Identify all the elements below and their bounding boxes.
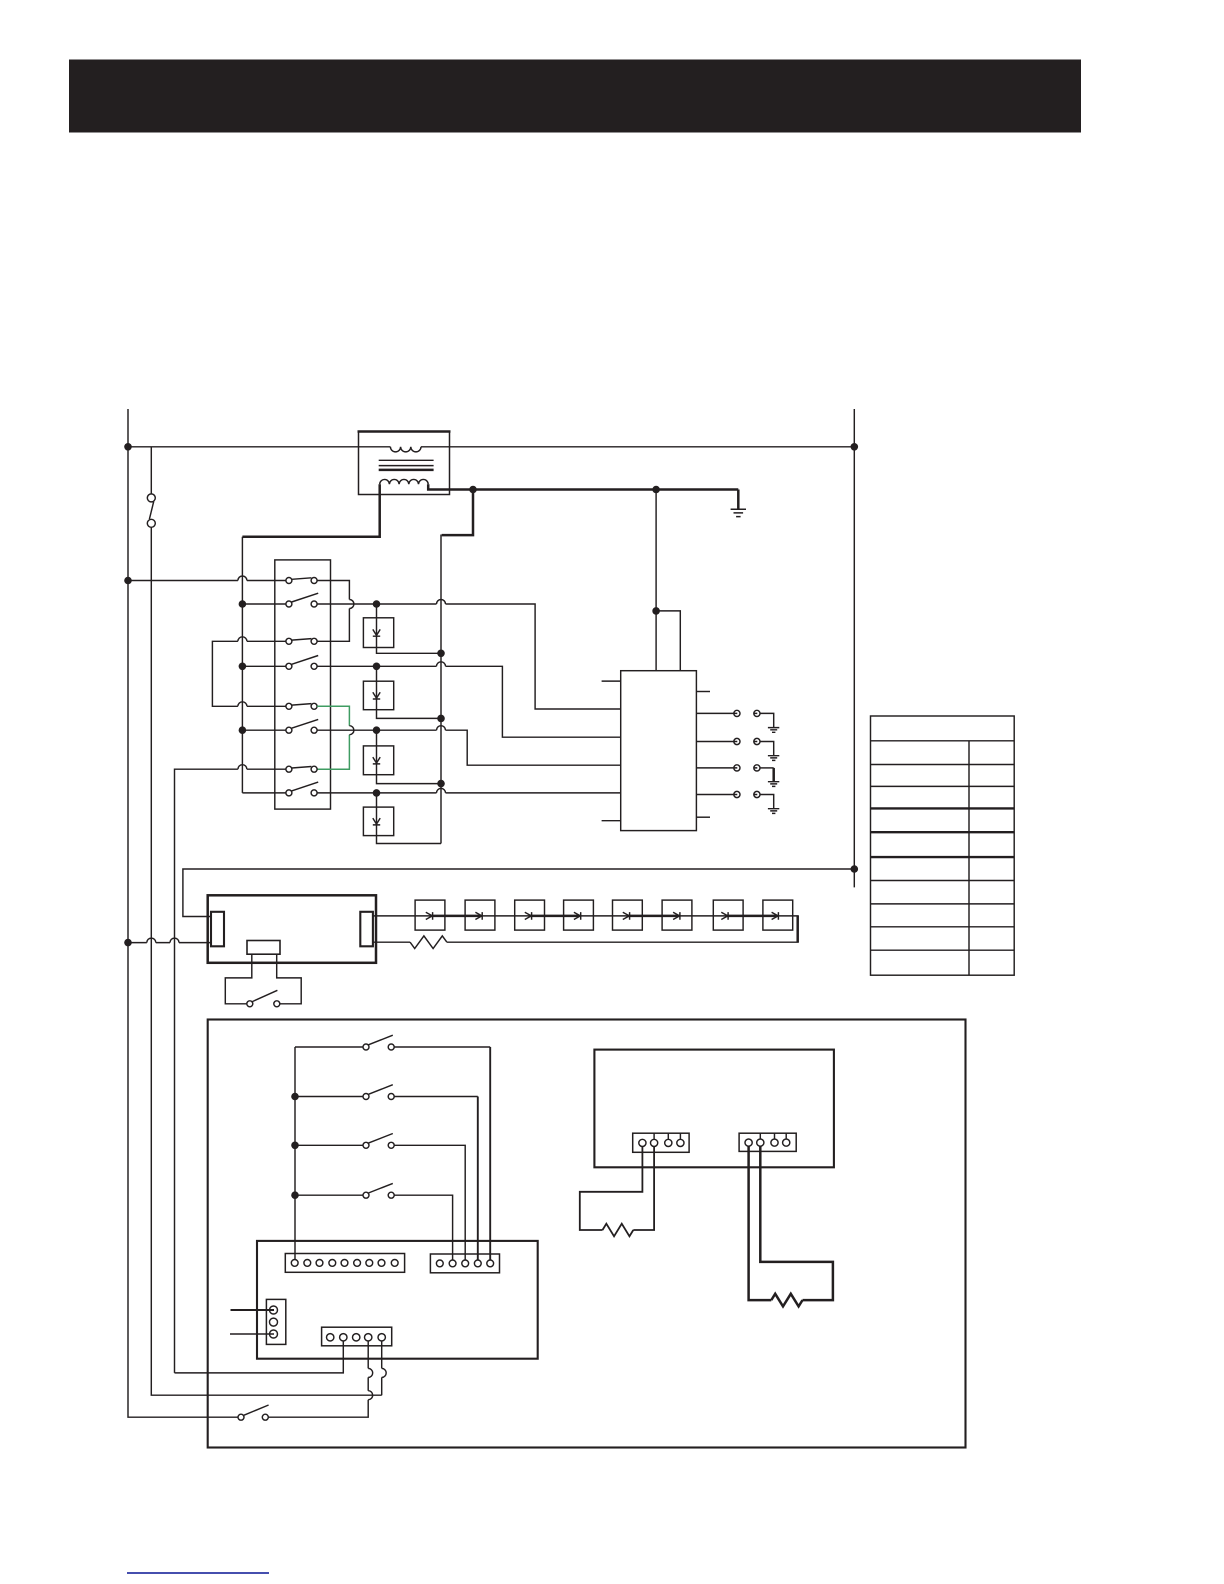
wire: indicator common bus (440, 535, 442, 844)
connector CN-B shell (430, 1254, 499, 1273)
wire: row6 output to IC pin 3 (317, 730, 621, 765)
connector pair P1 with ground (696, 710, 779, 732)
pin stub: U1 left upper (602, 680, 621, 682)
connector pair P2 with ground (696, 738, 779, 760)
transformer T1 core (379, 460, 434, 465)
node: row6 lamp tap (373, 726, 381, 734)
data table frame (871, 716, 1015, 975)
indicator lamp DS2 box (363, 681, 393, 710)
wire: top horizontal supply (128, 446, 854, 448)
switch SW2a blade (292, 639, 312, 641)
heater element H4 box (564, 900, 594, 930)
wire: chain return run (447, 941, 799, 943)
wire: branch to power unit (left long run) (183, 869, 854, 917)
wire: row7 feed from timer line (175, 769, 286, 1373)
terminal strip TB1 (633, 1133, 689, 1152)
node: row8 lamp tap (373, 789, 381, 797)
wire: bus bottom corner to lamp 4 (377, 836, 442, 844)
wire hop: pin4 over pin2 run (368, 1368, 373, 1377)
wire: lamp2 to bus (377, 710, 442, 719)
connector CN-D shell (5-pin) (322, 1327, 392, 1346)
heater assembly box (594, 1050, 834, 1168)
wire: bank rail (from transformer) (241, 537, 243, 793)
switch SW1b blade (292, 593, 319, 602)
switch SW4a contacts (286, 766, 292, 772)
indicator lamp DS4 box (363, 807, 393, 836)
node: bank rail row6 junction (239, 726, 247, 734)
switch SW3a contacts (286, 703, 292, 709)
wire hop: row2 over bus (437, 600, 446, 605)
wire: row1 feed from left rail (128, 580, 286, 582)
wire: row6 stub from bank rail (242, 729, 286, 731)
wire: secondary output (thick) to ground (428, 484, 738, 509)
connector CN-C shell (3-pin) (266, 1299, 285, 1344)
wire: row8 output to IC pin 4 (317, 792, 621, 794)
switch TH2 row (295, 1085, 478, 1260)
transformer T1 primary coil (390, 447, 421, 452)
wire: row3 left link via bracket (212, 641, 286, 706)
heater element H8 box (763, 900, 793, 930)
control board box (257, 1241, 538, 1359)
indicator lamp DS1 box (363, 618, 393, 648)
switch SW2a contacts (286, 638, 292, 644)
component block K1 (small rect) (247, 941, 280, 955)
wire hop: row4 over bus (437, 662, 446, 667)
node: row2 lamp tap (373, 600, 381, 608)
wire: glow plug chain top line (373, 915, 799, 917)
node: left rail power-unit junction (124, 939, 132, 947)
connector CN-A pins (291, 1260, 398, 1267)
wire hop: row7 over bank rail (238, 765, 247, 770)
switch SW1b contacts (286, 601, 292, 607)
node: ladder junction 3 (291, 1191, 299, 1199)
oven compartment outer box (208, 1020, 966, 1448)
connector CN-B pins (436, 1260, 493, 1267)
switch S2 blade (252, 990, 277, 1001)
data table row lines (871, 741, 1015, 950)
connector pair P3 with ground (heavy) (696, 765, 779, 787)
header black title bar (69, 60, 1081, 133)
transformer T1 secondary coil (380, 479, 429, 484)
switch S1 (main line switch) (147, 447, 155, 528)
pin stub: U1 left lower (602, 820, 621, 822)
power unit box (208, 895, 376, 963)
clock/timer IC U1 (621, 671, 697, 831)
node: ladder junction 1 (291, 1093, 299, 1101)
node: left rail row1 junction (124, 577, 132, 585)
wire: R1 to fuse F2 (373, 941, 410, 943)
heater element H6 box (662, 900, 692, 930)
wire: row4 output to IC pin 2 (317, 666, 621, 737)
wire hop: over timer line (170, 938, 179, 943)
node: bank rail row4 junction (239, 663, 247, 671)
wire hop: row3 over bank rail (238, 637, 247, 642)
wire hop: over S1 run (147, 938, 156, 943)
node: IC top feed junction (652, 607, 660, 615)
node: bus junction (lamp 2) (437, 715, 445, 723)
wire: CN-C pin3 stub (230, 1333, 274, 1335)
wire: row2 stub from bank rail (242, 603, 286, 605)
resistor R3 (771, 1294, 802, 1307)
switch SW2b contacts (286, 663, 292, 669)
fuse F1 (left) (211, 912, 224, 947)
wire: lamp1 to bus (377, 648, 442, 654)
switch S3 blade (244, 1405, 269, 1415)
terminal strip TB2 (739, 1133, 796, 1151)
pin stub: U1 right lower (696, 816, 710, 818)
node: secondary output junction B (652, 486, 660, 494)
heater element H2 box (465, 900, 495, 930)
wire: row5 left link via bracket hop (247, 705, 286, 707)
wire: thick jog from junction A to indicator bus (442, 490, 473, 536)
node: secondary output junction A (469, 486, 477, 494)
footer link underline (127, 1572, 269, 1574)
switch S2 (door) contacts (247, 1001, 253, 1007)
node: bank rail row2 junction (239, 600, 247, 608)
switch TH4 row (295, 1183, 453, 1260)
wire: right supply rail N (853, 409, 855, 887)
wire: lamp4 feed (376, 793, 378, 807)
node: row4 lamp tap (373, 663, 381, 671)
fuse F2 (right) (360, 912, 373, 947)
wire: row1-row3 link with hop over row2 (317, 581, 349, 642)
wire: lamp3 to bus (377, 775, 442, 784)
node: top right junction (851, 443, 859, 451)
node: L1 top junction (124, 443, 132, 451)
connector pair P4 with ground (696, 791, 779, 813)
pin stub: U1 right upper (696, 691, 710, 693)
wire: TB2 loop with element R3 (heavy) (749, 1146, 833, 1300)
ground symbol (secondary) (731, 509, 746, 516)
wire: chain end elbow (thick) (796, 916, 799, 942)
wire: lamp2 feed (376, 666, 378, 681)
connector CN-A shell (285, 1254, 404, 1273)
wire: row2 output to IC pin 1 (317, 604, 621, 709)
wire: K1 left lead to door switch (225, 954, 252, 1004)
wire: chain thick segments (431, 915, 777, 918)
wire: row8 stub from bank rail (242, 792, 286, 794)
wire: feed down to clock IC top pins (656, 490, 680, 671)
switch TH3 row (295, 1134, 465, 1261)
wire: K1 right lead to door switch (277, 954, 302, 1004)
wire: left supply rail L1 (128, 409, 238, 1417)
wire: row5-row7 link (green) (317, 706, 349, 769)
wire: lamp3 feed (376, 730, 378, 746)
wire hop: row1 over bank rail (238, 576, 247, 581)
wire: secondary left lead down-left to bank rail (thick) (242, 484, 379, 536)
wire hop: pin5 over pin2 run (382, 1368, 387, 1377)
switch SW3a blade (292, 704, 312, 706)
node: right rail branch junction (851, 865, 859, 873)
switch SW1a contacts (286, 578, 292, 584)
heater element H5 box (613, 900, 643, 930)
wire hop: row5 over bank rail (238, 702, 247, 707)
switch SW3b blade (292, 719, 319, 728)
switch bank (selector) box (275, 560, 331, 809)
heater element H1 box (415, 900, 445, 930)
switch SW4a blade (292, 767, 312, 769)
wire hop: green link over row6 (349, 726, 354, 735)
resistor R2 (603, 1224, 634, 1237)
switch TH1 row (295, 1035, 490, 1260)
wire: CN-D pin5 down with hop (381, 1341, 383, 1395)
wire: left rail to power unit fuse with hops (128, 942, 211, 944)
wire: lamp1 feed (376, 604, 378, 618)
wire: CN-D pin4 down with hops to switch S3 (268, 1341, 368, 1417)
wire: S1 lower run to 5-pin plug pin5 feed (151, 527, 381, 1395)
wire: row4 stub from bank rail (242, 665, 286, 667)
wire hop: row6 over bus (437, 726, 446, 730)
switch SW2b blade (292, 656, 319, 665)
heater element H7 box (713, 900, 743, 930)
node: bus junction (lamp 1) (437, 650, 445, 658)
indicator lamp DS3 box (363, 746, 393, 775)
switch SW1a blade (292, 578, 312, 580)
wire: TB1 loop with element R2 (580, 1147, 654, 1231)
wire: CN-C pin1 stub (heavy) (231, 1309, 275, 1311)
switch SW3b contacts (286, 727, 292, 733)
switch SW4b contacts (286, 790, 292, 796)
node: ladder junction 2 (291, 1142, 299, 1150)
switch SW4b blade (292, 782, 319, 791)
switch S3 contacts (238, 1414, 244, 1420)
node: bus junction (lamp 3) (437, 780, 445, 788)
resistor R1 (410, 936, 447, 949)
wire hop: pin4 over pin5 run (368, 1391, 373, 1400)
wire hop: row8 over bus (437, 788, 446, 793)
heater element H3 box (515, 900, 545, 930)
data table heavy row lines (871, 808, 1015, 857)
connector CN-C pins (270, 1306, 278, 1338)
transformer T1 box (359, 432, 450, 495)
data table column divider (968, 741, 970, 975)
wire: CN-D pin2 to timer line (175, 1341, 344, 1373)
wire: thermostat ladder rail (294, 1047, 296, 1260)
connector CN-D pins (327, 1334, 386, 1341)
